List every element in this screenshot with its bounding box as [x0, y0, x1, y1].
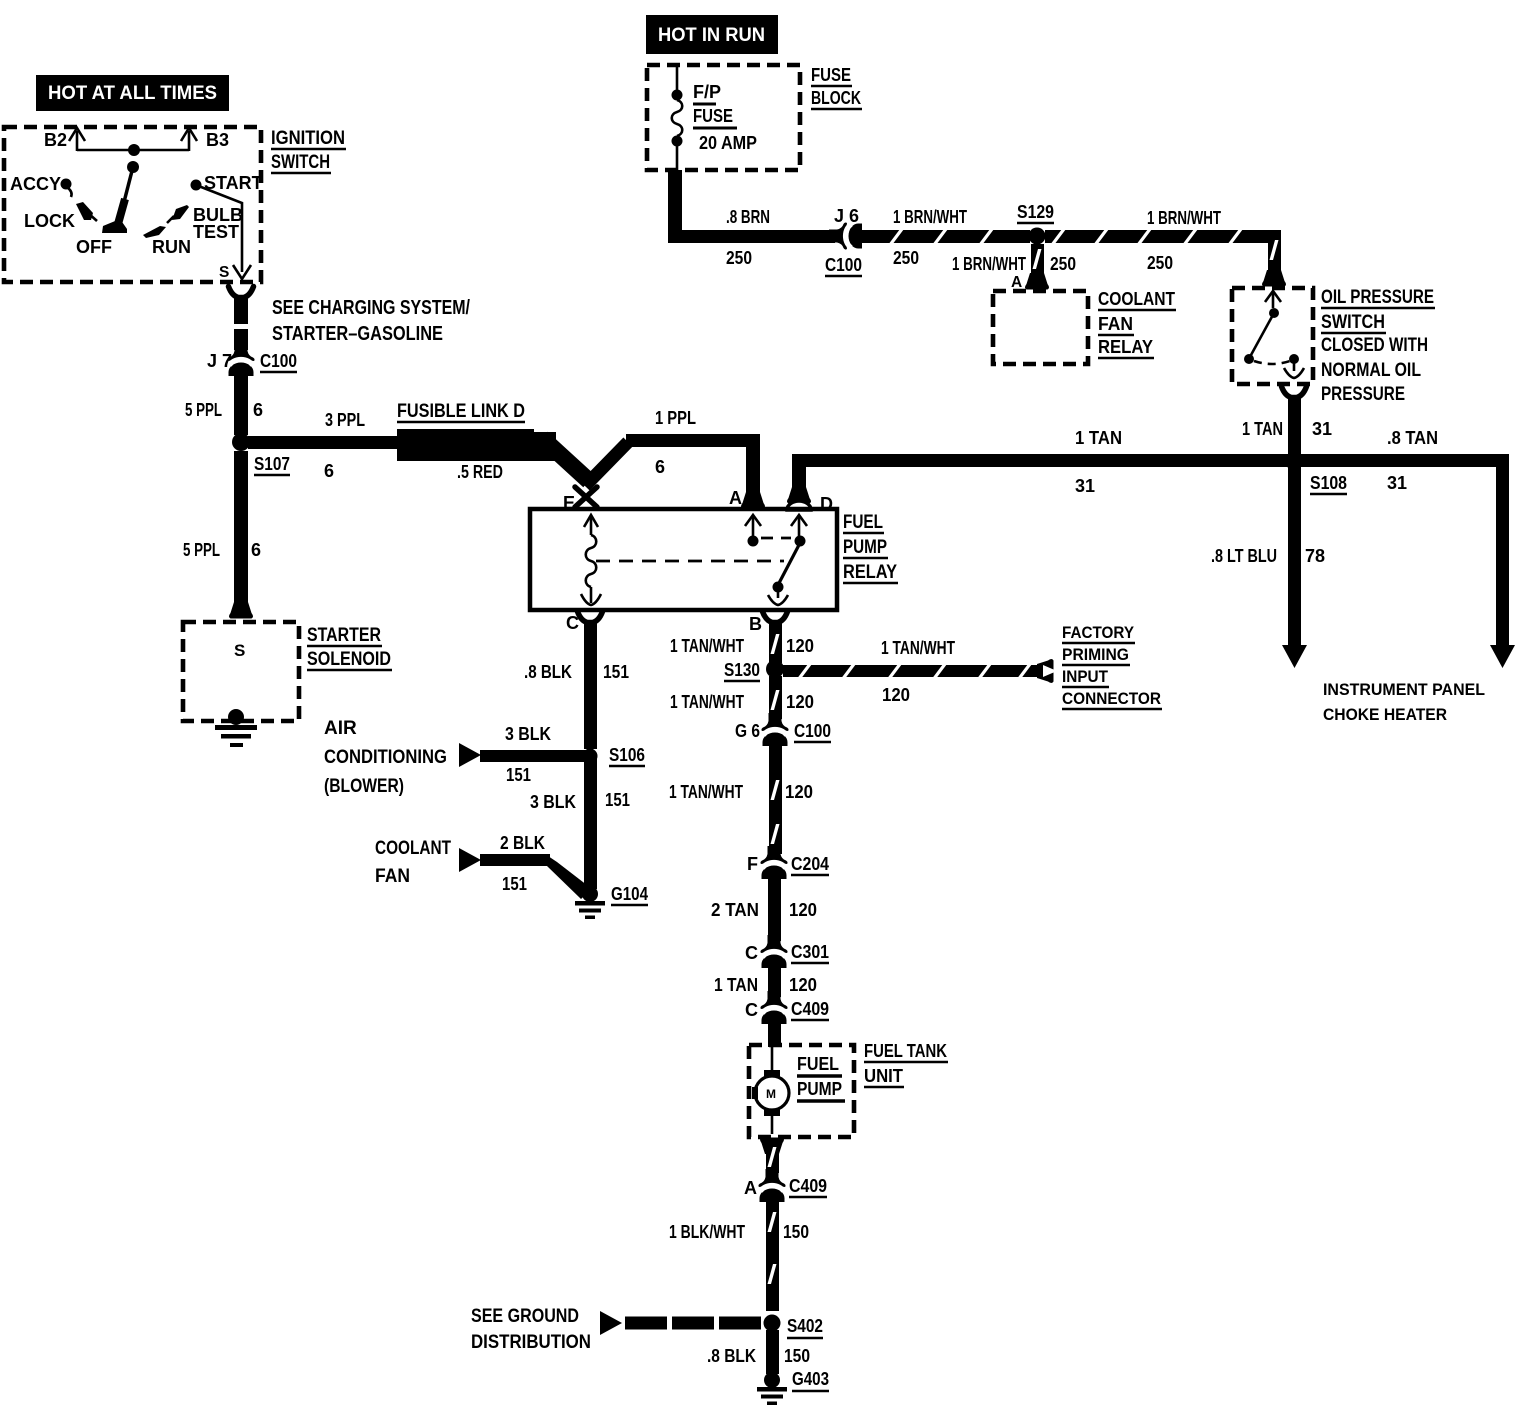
svg-text:FAN: FAN [375, 866, 410, 887]
svg-text:SEE CHARGING SYSTEM/: SEE CHARGING SYSTEM/ [272, 297, 470, 319]
pin S arrow [219, 264, 251, 281]
connector G6 C100 [735, 713, 831, 746]
svg-text:1 TAN: 1 TAN [1242, 419, 1283, 439]
svg-text:B2: B2 [44, 130, 67, 150]
oil pressure switch contacts [1244, 291, 1304, 378]
svg-text:120: 120 [785, 782, 813, 802]
svg-text:A: A [729, 488, 742, 508]
node E splice X [563, 487, 597, 513]
svg-text:PUMP: PUMP [843, 537, 887, 558]
svg-text:HOT IN RUN: HOT IN RUN [658, 25, 765, 46]
label COOLANT FAN RELAY [1098, 289, 1176, 358]
wire C409 to fuel tank unit [768, 1023, 781, 1047]
node S129 [1017, 202, 1054, 245]
svg-text:6: 6 [251, 540, 261, 560]
ground at starter solenoid [215, 709, 257, 747]
wire S130 to factory priming, 1 TAN/WHT 120 [783, 638, 1057, 705]
svg-text:C100: C100 [825, 255, 862, 275]
node S402 [764, 1315, 824, 1339]
pin C connector [566, 612, 603, 634]
wire see ground distribution dashed [600, 1311, 764, 1335]
svg-text:250: 250 [893, 248, 919, 268]
svg-text:78: 78 [1305, 546, 1325, 566]
wire 1 TAN 31 relay D to S108 [792, 428, 1304, 496]
svg-text:CHOKE HEATER: CHOKE HEATER [1323, 705, 1447, 724]
svg-text:DISTRIBUTION: DISTRIBUTION [471, 1332, 591, 1353]
wire 1 BRN/WHT to oil pressure switch [1045, 208, 1286, 287]
svg-text:INSTRUMENT PANEL: INSTRUMENT PANEL [1323, 680, 1485, 699]
wire .8 LT BLU 78 down arrow [1211, 467, 1325, 668]
svg-text:FUSE: FUSE [693, 106, 733, 126]
svg-text:B3: B3 [206, 130, 229, 150]
svg-text:1 BLK/WHT: 1 BLK/WHT [669, 1222, 745, 1242]
svg-text:NORMAL OIL: NORMAL OIL [1321, 360, 1421, 381]
ground G403 [757, 1369, 829, 1405]
position BULB TEST [167, 205, 243, 242]
svg-text:250: 250 [726, 248, 752, 268]
fuel tank unit box [749, 1045, 854, 1137]
svg-text:SOLENOID: SOLENOID [307, 649, 391, 670]
connector C C301 [745, 935, 829, 968]
wire S107 to fusible link, 3 PPL 6 [248, 410, 398, 481]
svg-text:B: B [749, 614, 762, 634]
pin B3 arrow [181, 128, 229, 151]
svg-text:6: 6 [655, 457, 665, 477]
svg-text:120: 120 [786, 692, 814, 712]
wire S106 to G104, 3 BLK 151 [530, 756, 630, 889]
svg-text:1 TAN/WHT: 1 TAN/WHT [670, 692, 744, 712]
svg-text:C: C [566, 613, 579, 633]
svg-text:RUN: RUN [152, 237, 191, 257]
fuse block box [647, 65, 800, 170]
relay contact D and lever to B [768, 515, 807, 605]
svg-text:31: 31 [1075, 476, 1095, 496]
svg-text:INPUT: INPUT [1062, 667, 1109, 686]
svg-text:FUEL TANK: FUEL TANK [864, 1041, 947, 1061]
wire ignition to C100 [234, 297, 248, 350]
pin B2 arrow [44, 128, 85, 151]
svg-text:1 PPL: 1 PPL [655, 408, 696, 428]
svg-text:S129: S129 [1017, 202, 1054, 222]
svg-text:F/P: F/P [693, 82, 721, 102]
node bus junction [128, 144, 140, 156]
svg-text:SWITCH: SWITCH [271, 152, 330, 173]
svg-text:G403: G403 [792, 1369, 829, 1389]
label SEE GROUND DISTRIBUTION [471, 1306, 591, 1353]
svg-text:RELAY: RELAY [843, 562, 897, 583]
svg-text:C100: C100 [260, 351, 297, 371]
label OIL PRESSURE SWITCH CLOSED WITH NORMAL OIL PRESSURE [1321, 287, 1435, 405]
switch lever to OFF [102, 167, 133, 233]
svg-text:150: 150 [784, 1346, 810, 1366]
svg-text:START: START [204, 173, 263, 193]
wire 1 BRN/WHT 250 to S129 [861, 207, 1030, 268]
label HOT IN RUN [646, 15, 778, 54]
svg-text:CLOSED WITH: CLOSED WITH [1321, 335, 1428, 356]
svg-text:.8 BLK: .8 BLK [524, 662, 572, 682]
wire C100 to S107, 5 PPL 6 [185, 375, 263, 435]
label FUSE BLOCK [811, 65, 862, 109]
svg-text:.8 BRN: .8 BRN [726, 207, 770, 227]
svg-text:COOLANT: COOLANT [1098, 289, 1175, 309]
svg-text:(BLOWER): (BLOWER) [324, 776, 404, 797]
wire 1 PPL 6 to pin A [585, 408, 760, 496]
connector J7 C100 [207, 343, 297, 376]
svg-text:250: 250 [1147, 253, 1173, 273]
svg-text:FUSE: FUSE [811, 65, 851, 85]
svg-text:120: 120 [882, 685, 910, 705]
svg-text:C: C [745, 1000, 758, 1020]
position START [191, 173, 263, 193]
svg-text:1 TAN/WHT: 1 TAN/WHT [669, 782, 743, 802]
coolant fan relay box [993, 291, 1088, 364]
ground G104 [575, 884, 648, 919]
svg-text:G 6: G 6 [735, 721, 760, 741]
svg-text:.8 BLK: .8 BLK [707, 1346, 756, 1366]
svg-text:PRIMING: PRIMING [1062, 645, 1129, 664]
svg-text:CONDITIONING: CONDITIONING [324, 747, 447, 768]
label INSTRUMENT PANEL CHOKE HEATER [1323, 680, 1485, 724]
connector C C409 [745, 991, 829, 1024]
position RUN [143, 226, 191, 257]
label COOLANT FAN [375, 838, 451, 887]
svg-text:5 PPL: 5 PPL [183, 540, 220, 560]
connector A C409 [744, 1169, 827, 1202]
node S106 [583, 745, 646, 766]
svg-text:S: S [234, 641, 245, 660]
svg-text:IGNITION: IGNITION [271, 128, 345, 149]
svg-text:PUMP: PUMP [797, 1079, 842, 1099]
svg-text:LOCK: LOCK [24, 211, 75, 231]
label HOT AT ALL TIMES [36, 75, 229, 111]
wire air conditioning 3 BLK 151 [459, 724, 592, 785]
node pivot [127, 161, 139, 173]
svg-text:.5 RED: .5 RED [457, 462, 503, 482]
svg-text:SEE GROUND: SEE GROUND [471, 1306, 579, 1327]
wire C100 to C204, 1 TAN/WHT 120 [669, 744, 813, 854]
label STARTER SOLENOID [307, 625, 392, 670]
svg-text:3 PPL: 3 PPL [325, 410, 365, 430]
svg-text:20 AMP: 20 AMP [699, 133, 757, 153]
svg-text:OIL PRESSURE: OIL PRESSURE [1321, 287, 1434, 308]
node S107 [232, 433, 290, 475]
wire coolant fan 2 BLK 151 [459, 833, 592, 899]
node S130 [724, 660, 784, 681]
wire S129 down to coolant fan relay, 1 BRN/WHT 250 A [952, 244, 1076, 291]
wire 1 TAN 120 [714, 967, 817, 997]
wire .8 BLK 150 [707, 1330, 810, 1374]
svg-text:S130: S130 [724, 660, 760, 680]
svg-text:A: A [744, 1178, 757, 1198]
svg-text:FUEL: FUEL [797, 1054, 839, 1074]
svg-text:120: 120 [789, 900, 817, 920]
svg-text:S106: S106 [609, 745, 645, 765]
svg-text:1 TAN: 1 TAN [714, 975, 758, 995]
svg-text:1 TAN/WHT: 1 TAN/WHT [881, 638, 955, 658]
svg-text:C100: C100 [794, 721, 831, 741]
relay contact A [745, 515, 791, 547]
svg-text:120: 120 [786, 636, 814, 656]
pin A connector [729, 488, 765, 509]
svg-text:PRESSURE: PRESSURE [1321, 384, 1405, 405]
label FUEL PUMP RELAY [843, 512, 898, 583]
wire fuel tank to C409 [760, 1138, 784, 1174]
svg-text:CONNECTOR: CONNECTOR [1062, 689, 1161, 708]
svg-text:C204: C204 [791, 854, 829, 874]
svg-text:J 7: J 7 [207, 351, 232, 371]
fuel pump relay box [530, 509, 837, 610]
svg-text:1 TAN/WHT: 1 TAN/WHT [670, 636, 744, 656]
svg-text:1 BRN/WHT: 1 BRN/WHT [1147, 208, 1221, 228]
svg-text:120: 120 [789, 975, 817, 995]
svg-text:J 6: J 6 [834, 206, 859, 226]
starter solenoid box [183, 622, 299, 721]
connector J6 C100 [825, 206, 862, 276]
svg-text:151: 151 [605, 790, 630, 810]
svg-text:S402: S402 [787, 1316, 823, 1336]
svg-text:TEST: TEST [193, 222, 239, 242]
svg-text:2 TAN: 2 TAN [711, 900, 759, 920]
svg-text:6: 6 [253, 400, 263, 420]
svg-text:RELAY: RELAY [1098, 337, 1153, 357]
svg-text:M: M [766, 1087, 776, 1101]
svg-text:31: 31 [1387, 473, 1407, 493]
svg-text:.8 LT BLU: .8 LT BLU [1211, 546, 1277, 566]
wire relay B down 1 TAN/WHT 120 [670, 623, 814, 663]
fuel pump motor [752, 1047, 789, 1134]
svg-text:C409: C409 [789, 1176, 827, 1196]
relay dashed link [596, 560, 784, 563]
oil pressure switch box [1232, 288, 1313, 384]
label IGNITION SWITCH [271, 128, 346, 173]
svg-text:3 BLK: 3 BLK [505, 724, 551, 744]
node S108 [1285, 452, 1407, 494]
svg-text:S108: S108 [1310, 473, 1347, 493]
svg-text:6: 6 [324, 461, 334, 481]
svg-text:UNIT: UNIT [864, 1066, 903, 1086]
svg-text:BLOCK: BLOCK [811, 88, 861, 108]
wire S107 to solenoid, 5 PPL 6 [183, 451, 261, 619]
wire relay C down, .8 BLK 151 [524, 623, 629, 749]
svg-text:C301: C301 [791, 942, 829, 962]
svg-text:S: S [219, 264, 229, 281]
ignition switch box [4, 127, 261, 282]
wire fuse block down, .8 BRN 250 [668, 170, 835, 268]
svg-text:COOLANT: COOLANT [375, 838, 451, 859]
svg-text:1 TAN: 1 TAN [1075, 428, 1122, 448]
svg-text:HOT AT ALL TIMES: HOT AT ALL TIMES [48, 83, 217, 104]
svg-text:1 BRN/WHT: 1 BRN/WHT [893, 207, 967, 227]
wire S130 down 1 TAN/WHT 120 [670, 676, 814, 719]
svg-text:S107: S107 [254, 454, 290, 474]
svg-text:151: 151 [502, 874, 527, 894]
label FACTORY PRIMING INPUT CONNECTOR [1062, 623, 1162, 709]
svg-text:G104: G104 [611, 884, 648, 904]
svg-text:250: 250 [1050, 254, 1076, 274]
label AIR CONDITIONING (BLOWER) [324, 718, 447, 797]
svg-text:150: 150 [783, 1222, 809, 1242]
svg-text:.8 TAN: .8 TAN [1387, 428, 1438, 448]
relay coil [581, 515, 601, 605]
svg-text:151: 151 [603, 662, 629, 682]
label FUEL PUMP inside tank [797, 1054, 845, 1101]
label FUEL TANK UNIT [864, 1041, 948, 1087]
svg-text:SWITCH: SWITCH [1321, 312, 1385, 333]
svg-text:A: A [1011, 274, 1022, 291]
position LOCK [24, 202, 97, 231]
svg-text:AIR: AIR [324, 718, 357, 739]
svg-text:C: C [745, 943, 758, 963]
svg-text:STARTER: STARTER [307, 625, 381, 646]
svg-text:31: 31 [1312, 419, 1332, 439]
wire 2 TAN 120 [711, 878, 817, 941]
svg-text:151: 151 [506, 765, 531, 785]
label SEE CHARGING SYSTEM / STARTER-GASOLINE [272, 297, 470, 345]
position ACCY [10, 174, 72, 197]
svg-text:5 PPL: 5 PPL [185, 400, 222, 420]
wire START to S [196, 185, 242, 272]
fusible link D [397, 401, 589, 482]
svg-text:FUSIBLE LINK D: FUSIBLE LINK D [397, 401, 525, 422]
svg-text:2 BLK: 2 BLK [500, 833, 545, 853]
svg-text:1 BRN/WHT: 1 BRN/WHT [952, 254, 1026, 274]
connector flare below ignition [229, 287, 254, 298]
svg-text:STARTER–GASOLINE: STARTER–GASOLINE [272, 323, 443, 345]
wire pin D up to 1 TAN [787, 454, 833, 514]
wire .8 TAN to right choke heater [1303, 428, 1515, 668]
svg-text:FUEL: FUEL [843, 512, 883, 533]
svg-text:ACCY: ACCY [10, 174, 61, 194]
connector F C204 [747, 846, 829, 879]
svg-text:FAN: FAN [1098, 314, 1133, 334]
svg-text:F: F [747, 854, 758, 874]
svg-text:FACTORY: FACTORY [1062, 623, 1135, 642]
svg-text:3 BLK: 3 BLK [530, 792, 576, 812]
svg-text:OFF: OFF [76, 237, 112, 257]
fuse F/P 20 AMP [672, 65, 758, 170]
wire B2-B3 bus [77, 149, 189, 152]
wire 1 BLK/WHT 150 [669, 1201, 809, 1311]
wire oil switch to S108, 1 TAN 31 [1242, 387, 1332, 455]
svg-text:C409: C409 [791, 999, 829, 1019]
pin B connector [749, 612, 788, 635]
